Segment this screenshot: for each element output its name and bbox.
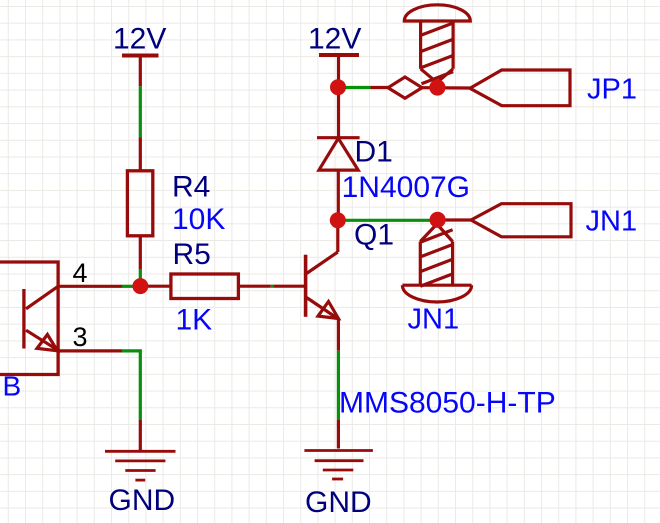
svg-text:JN1: JN1 xyxy=(586,205,638,237)
svg-text:B: B xyxy=(3,371,22,402)
svg-text:12V: 12V xyxy=(113,23,166,56)
svg-text:4: 4 xyxy=(73,258,88,288)
svg-text:GND: GND xyxy=(305,486,372,519)
svg-text:JP1: JP1 xyxy=(587,73,637,105)
svg-text:R4: R4 xyxy=(172,171,210,204)
svg-text:D1: D1 xyxy=(355,136,393,169)
svg-text:Q1: Q1 xyxy=(354,219,394,252)
svg-text:MMS8050-H-TP: MMS8050-H-TP xyxy=(339,386,556,419)
svg-text:1N4007G: 1N4007G xyxy=(342,171,470,204)
svg-text:JN1: JN1 xyxy=(408,304,460,336)
svg-text:12V: 12V xyxy=(308,23,361,56)
svg-text:GND: GND xyxy=(109,484,176,517)
svg-text:1K: 1K xyxy=(176,304,213,337)
svg-text:10K: 10K xyxy=(172,203,225,236)
svg-text:3: 3 xyxy=(73,322,88,352)
svg-text:R5: R5 xyxy=(173,238,211,271)
